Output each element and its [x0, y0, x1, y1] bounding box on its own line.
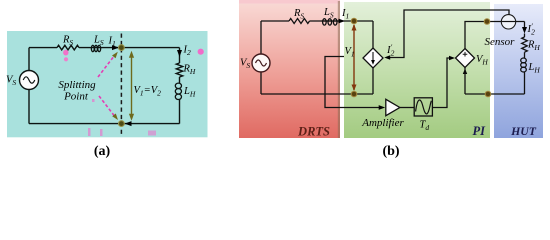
svg-text:PI: PI [473, 124, 487, 138]
resistor RH (a) [176, 63, 182, 77]
wire: source verticals + bottom rail (b) [261, 21, 373, 94]
current arrow I2 (a) [177, 50, 182, 57]
callout line to bottom node (a) [99, 96, 115, 116]
amplifier triangle U1 [386, 99, 400, 115]
source VS (b) [252, 54, 270, 72]
node: PI-HUT bottom junction [485, 91, 491, 97]
wire: top rail (a) [29, 47, 180, 49]
node: top junction (b) [351, 18, 357, 24]
callout line to top node (a) [98, 56, 115, 78]
measurement arrow V1 (b) [353, 25, 355, 90]
source VS (a) [20, 71, 39, 90]
svg-text:HUT: HUT [510, 124, 537, 138]
current arrow I1 (b) [339, 19, 346, 24]
wire: VH top to sensor rail [465, 22, 525, 49]
inductor LS (a) [91, 45, 94, 51]
wire: VH bottom + HUT bottom rail [465, 68, 525, 95]
resistor RS (a) [57, 45, 79, 50]
HUT background box [494, 4, 543, 138]
wire: right branch (a) [179, 48, 181, 124]
dependent source VH diamond [456, 49, 475, 68]
DRTS background box [239, 1, 340, 138]
inductor LH (a) [175, 83, 181, 88]
node: top junction (a) [119, 45, 125, 51]
sensor CT [501, 15, 515, 29]
svg-text:(b): (b) [382, 144, 399, 159]
node: PI-HUT top junction [484, 19, 490, 25]
svg-text:Point: Point [63, 91, 89, 103]
resistor RS (b) [289, 19, 310, 24]
current arrow I1 (a) [112, 45, 119, 50]
dependent source I2p diamond [363, 48, 383, 68]
node: bottom junction (b) [351, 91, 357, 97]
node: bottom junction (a) [119, 121, 125, 127]
svg-text:V1=V2: V1=V2 [134, 85, 162, 98]
wire: bottom rail (a) [29, 123, 180, 125]
wire: Td to VH control [432, 58, 449, 108]
feedback wire sensor to I2p [387, 10, 510, 58]
PI background box [344, 2, 490, 138]
inductor LH (b) [521, 58, 527, 63]
svg-text:Amplifier: Amplifier [361, 117, 404, 129]
wire: V1 tap to amplifier [325, 57, 380, 108]
inductor LS (b) [322, 20, 338, 22]
splitting point dashed line (a) [120, 34, 122, 135]
wire: source verticals (a) [28, 48, 30, 124]
return arrow on bottom rail (a) [125, 121, 132, 126]
panel (a) background [7, 31, 208, 137]
delay block Td [414, 98, 432, 116]
svg-text:DRTS: DRTS [297, 125, 330, 139]
resistor RH (b) [522, 37, 528, 52]
svg-text:Sensor: Sensor [485, 36, 516, 48]
wire: amp to Td [400, 107, 414, 109]
current arrow I2p HUT [522, 27, 527, 34]
stray magenta marks (a) [63, 50, 68, 56]
svg-text:(a): (a) [94, 144, 111, 159]
measurement arrow V1=V2 (a) [131, 54, 133, 119]
wire: top rail (b) [261, 21, 373, 48]
svg-text:Splitting: Splitting [58, 79, 96, 91]
